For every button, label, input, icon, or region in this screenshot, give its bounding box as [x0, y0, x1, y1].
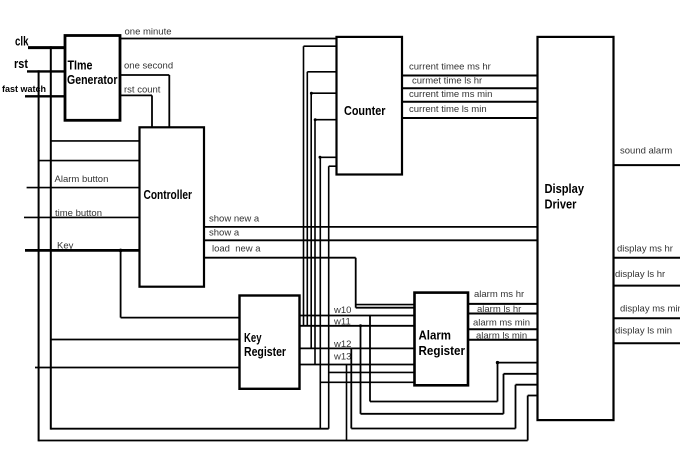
block U3 Counter	[337, 37, 403, 175]
svg-text:Generator: Generator	[67, 73, 118, 87]
junction riser r4 top	[314, 118, 317, 121]
wire C vertical from w12	[350, 348, 352, 428]
svg-text:w10: w10	[333, 305, 351, 316]
wire riser r4 vertical	[314, 120, 316, 365]
svg-text:Register: Register	[244, 345, 286, 359]
svg-text:clk: clk	[15, 35, 29, 49]
wire display ms min output	[614, 317, 680, 319]
wire time button	[24, 216, 140, 218]
svg-text:load new a: load new a	[212, 244, 261, 255]
wire riser r2 vertical	[306, 72, 308, 326]
svg-text:show new a: show new a	[209, 214, 260, 225]
svg-text:alarm ms min: alarm ms min	[473, 318, 530, 329]
wire load new a into Alarm Register	[356, 307, 415, 309]
wire clk riser vertical	[50, 46, 52, 429]
wire riser r3 into Counter	[311, 92, 336, 94]
wire display ls min output	[614, 342, 680, 344]
wire Key input	[25, 249, 140, 252]
wire riser r6 into Counter	[329, 165, 337, 167]
wire w10	[300, 315, 415, 317]
wire rst count vertical to Controller	[151, 95, 153, 127]
wire one minute	[120, 38, 337, 40]
wire bus alarm ms min	[468, 328, 538, 330]
svg-text:TIme: TIme	[68, 59, 93, 73]
wire bus current time ms hr	[402, 75, 538, 77]
wire B riser	[503, 374, 505, 414]
wire w11	[300, 325, 415, 327]
wire rst to Controller	[39, 160, 140, 162]
wire clk loop branch into Alarm Register	[328, 371, 414, 373]
wire riser r5 branch into Alarm Register	[320, 381, 414, 383]
block U5 Alarm Register	[415, 293, 469, 386]
wire A riser	[497, 363, 499, 402]
wire fast watch input	[25, 95, 66, 97]
wire bus current time ms min	[402, 101, 538, 103]
wire sound alarm output	[614, 164, 680, 166]
wire B vertical from w11	[360, 326, 362, 414]
wire w13	[300, 364, 415, 366]
svg-text:display ls hr: display ls hr	[615, 269, 665, 280]
wire one second horizontal	[120, 74, 169, 76]
junction riser r5 top	[319, 156, 322, 159]
wire riser r5 into Counter	[320, 156, 336, 158]
block U1 TIme Generator	[65, 36, 120, 121]
wire bus alarm ls min	[468, 339, 538, 341]
wire C riser	[515, 385, 517, 429]
wire clk input	[28, 46, 66, 49]
junction Key branch	[119, 249, 123, 253]
wire Alarm button	[27, 187, 140, 189]
svg-text:display ms hr: display ms hr	[617, 244, 673, 255]
wire riser r2 into Counter	[307, 71, 336, 73]
junction wire A corner	[496, 361, 499, 364]
wire rst branch to Key Register	[35, 367, 240, 369]
svg-text:current time ms min: current time ms min	[409, 89, 492, 100]
block U2 Controller	[140, 127, 205, 286]
wire D riser	[527, 396, 529, 441]
svg-text:Controller: Controller	[144, 188, 193, 202]
wire clk bottom run	[51, 428, 329, 430]
svg-text:Register: Register	[419, 344, 466, 358]
svg-text:Counter: Counter	[344, 104, 386, 118]
wire rst riser vertical	[38, 70, 40, 441]
wire load new a vertical	[355, 258, 357, 308]
wire show a	[204, 239, 538, 241]
wire C bottom horizontal	[351, 428, 515, 430]
svg-text:Alarm button: Alarm button	[55, 174, 109, 185]
svg-text:current timee ms hr: current timee ms hr	[409, 62, 491, 73]
wire B into Display Driver	[504, 373, 538, 375]
wire riser r5 vertical	[319, 157, 321, 428]
wire riser r1 vertical	[303, 46, 305, 326]
wire bus current time ls min	[402, 117, 538, 119]
svg-text:Driver: Driver	[545, 198, 577, 212]
svg-text:display ms min: display ms min	[620, 304, 680, 315]
wire D into Display Driver	[528, 395, 538, 397]
wire display ms hr output	[614, 257, 680, 259]
svg-text:Key: Key	[244, 331, 262, 345]
wire riser r4 into Counter	[315, 119, 337, 121]
wire A into Display Driver	[498, 362, 538, 364]
svg-text:show a: show a	[209, 228, 240, 239]
junction riser r3 top	[310, 92, 313, 95]
svg-text:sound alarm: sound alarm	[620, 146, 672, 157]
svg-text:rst count: rst count	[124, 85, 161, 96]
svg-text:rst: rst	[14, 57, 29, 71]
svg-text:one minute: one minute	[125, 27, 172, 38]
svg-text:current time ls min: current time ls min	[409, 104, 487, 115]
wire display ls hr output	[614, 285, 680, 287]
svg-text:display ls min: display ls min	[615, 326, 672, 337]
wire rst bottom run	[39, 440, 528, 442]
wire one second vertical to Controller	[168, 75, 170, 127]
block U4 Key Register	[240, 296, 300, 389]
wire B bottom horizontal	[361, 413, 504, 415]
wire Key branch vertical	[120, 250, 122, 317]
wire C into Display Driver	[516, 384, 538, 386]
wire bus current time ls hr	[402, 87, 538, 89]
svg-text:one second: one second	[124, 61, 173, 72]
wire bus alarm ms hr	[468, 303, 538, 305]
wire A bottom horizontal	[370, 401, 498, 403]
wire branch vertical to rst bottom	[346, 365, 348, 441]
wire riser r3 vertical	[310, 93, 312, 348]
wire w12	[300, 347, 415, 349]
wire load new a duplicate stroke	[357, 304, 415, 306]
svg-text:w13: w13	[333, 352, 351, 363]
wire rst count horizontal	[120, 94, 152, 96]
wire riser r1 into Counter	[304, 45, 337, 47]
wire rst input	[27, 70, 66, 72]
wire bus alarm ls hr	[468, 313, 538, 315]
wire Key branch to Key Register	[121, 317, 240, 319]
svg-text:Alarm: Alarm	[419, 329, 452, 343]
wire clk branch to Key Register	[51, 339, 240, 341]
junction wire B top	[359, 324, 362, 327]
svg-text:Display: Display	[545, 182, 585, 196]
wire show new a	[204, 226, 538, 228]
wire clk to Controller	[51, 140, 140, 142]
wire riser r6 vertical clk loop	[328, 166, 330, 429]
wire load new a horizontal	[204, 257, 356, 259]
block U6 Display Driver	[538, 37, 614, 420]
svg-text:curmet time ls hr: curmet time ls hr	[412, 76, 482, 87]
wire A vertical from w10	[369, 316, 371, 402]
svg-text:alarm ms hr: alarm ms hr	[474, 289, 524, 300]
